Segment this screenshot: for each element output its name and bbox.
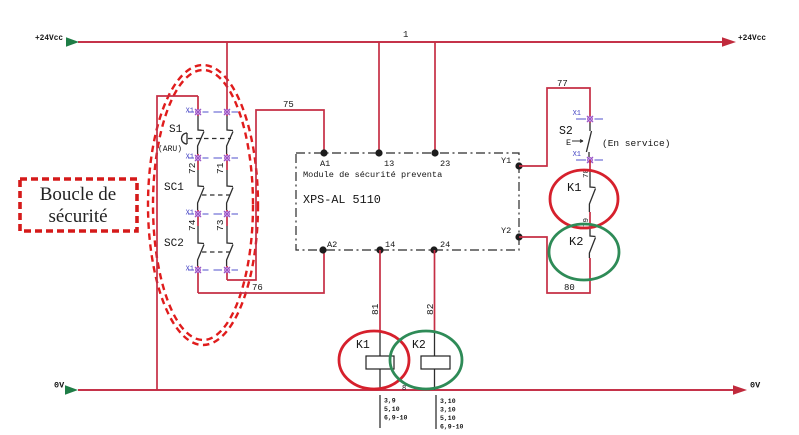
- node Y2 pin: [515, 233, 522, 240]
- label X1 S2 bottom + dashes: [573, 151, 603, 160]
- svg-text:72: 72: [187, 162, 198, 174]
- wire 81 (pin14 to K1 coil to 0V): [379, 250, 381, 332]
- annotation red circle K1 coil: [339, 331, 409, 389]
- svg-text:14: 14: [385, 240, 395, 250]
- node A1 pin: [320, 149, 327, 156]
- S1 mushroom actuator: [182, 133, 188, 144]
- terminal X1 pair2 left: [195, 155, 201, 161]
- svg-text:E: E: [566, 138, 571, 148]
- svg-text:K2: K2: [412, 339, 426, 352]
- wire left chain red segments: [197, 96, 199, 293]
- SC2 actuator dashed link: [202, 251, 230, 253]
- wire S2 to K1 contact: [589, 160, 591, 172]
- terminal X1 pair4 right: [224, 267, 230, 273]
- node 14 pin: [376, 246, 383, 253]
- svg-text:sécurité: sécurité: [48, 206, 107, 227]
- contact K2 (NO): [589, 229, 595, 258]
- svg-text:3,10: 3,10: [440, 398, 456, 405]
- terminal X1 pair4 left: [195, 267, 201, 273]
- label X1 pair4 + blue leader dashes: [186, 266, 238, 274]
- svg-text:X1: X1: [573, 151, 581, 159]
- power 0V left arrow: [65, 385, 78, 395]
- terminal X1 S2 top: [587, 116, 593, 122]
- svg-text:XPS-AL 5110: XPS-AL 5110: [303, 193, 381, 207]
- wire 76 (left chain bottom to A2): [198, 250, 324, 293]
- wire 77 (Y1 feedback to S2): [519, 88, 590, 166]
- node 23 pin: [431, 149, 438, 156]
- svg-text:3,9: 3,9: [384, 398, 396, 405]
- annotation safety-loop dashed ellipse (inner): [153, 70, 253, 340]
- wire 82 (pin24 to K2 coil to 0V): [434, 250, 436, 332]
- label X1 pair2 + blue leader dashes: [186, 154, 238, 162]
- K2 contact cross-reference table: [435, 395, 437, 429]
- svg-text:A2: A2: [327, 240, 337, 250]
- svg-text:75: 75: [283, 100, 294, 110]
- svg-text:76: 76: [252, 283, 263, 293]
- power 0V right arrow: [733, 385, 747, 395]
- K1 contact cross-reference table: [379, 395, 381, 428]
- wire +24Vcc top rail (net 1): [78, 41, 725, 43]
- svg-text:24: 24: [440, 240, 450, 250]
- terminal X1 pair3 right: [224, 211, 230, 217]
- svg-text:Y2: Y2: [501, 226, 511, 236]
- wire K1 to K2 contact: [589, 212, 591, 229]
- S1 actuator dashed link: [188, 138, 231, 140]
- power +24Vcc left arrow: [66, 37, 79, 47]
- wire rail to pin 13: [378, 42, 380, 153]
- annotation green circle K2 coil: [390, 331, 462, 389]
- svg-text:Boucle de: Boucle de: [40, 184, 117, 205]
- annotation green circle K2 contact: [549, 224, 619, 280]
- svg-text:(En service): (En service): [602, 138, 670, 149]
- label X1 pair3 + blue leader dashes: [186, 210, 238, 218]
- svg-text:74: 74: [187, 219, 198, 231]
- node Y1 pin: [515, 162, 522, 169]
- svg-text:23: 23: [440, 159, 450, 169]
- switch S2 contact: [586, 123, 591, 157]
- svg-text:S1: S1: [169, 124, 183, 136]
- svg-text:0V: 0V: [54, 381, 65, 391]
- annotation safety-loop dashed ellipse (outer): [148, 65, 258, 345]
- contact S1 left pole: [198, 116, 204, 154]
- svg-text:X1: X1: [573, 110, 581, 118]
- svg-text:13: 13: [384, 159, 394, 169]
- coil K2: [421, 356, 450, 369]
- svg-text:(ARU): (ARU): [158, 145, 182, 154]
- svg-text:8: 8: [402, 385, 406, 393]
- node 13 pin: [375, 149, 382, 156]
- contact SC2 left pole: [198, 226, 204, 266]
- contact S1 right pole: [227, 116, 233, 154]
- svg-text:1: 1: [403, 30, 408, 40]
- annotation red circle K1 contact: [550, 170, 618, 228]
- SC1 actuator dashed link: [202, 194, 230, 196]
- svg-text:77: 77: [557, 79, 568, 89]
- node 24 pin: [430, 246, 437, 253]
- svg-text:SC1: SC1: [164, 182, 184, 194]
- svg-text:80: 80: [564, 283, 575, 293]
- svg-text:5,10: 5,10: [384, 406, 400, 413]
- svg-text:81: 81: [370, 303, 381, 315]
- terminal X1 pair1 right: [224, 109, 230, 115]
- wire right chain red segments: [226, 154, 228, 280]
- wire 75 (right chain bottom to A1): [227, 110, 324, 280]
- svg-text:5,10: 5,10: [440, 415, 456, 422]
- svg-text:71: 71: [215, 162, 226, 174]
- terminal X1 S2 bottom: [587, 157, 593, 163]
- contact SC1 right pole: [227, 170, 233, 210]
- svg-text:+24Vcc: +24Vcc: [35, 35, 63, 43]
- svg-text:A1: A1: [320, 159, 330, 169]
- svg-text:SC2: SC2: [164, 238, 184, 250]
- label X1 S2 top + dashes: [573, 110, 603, 119]
- svg-text:73: 73: [215, 219, 226, 231]
- power +24Vcc right arrow: [722, 37, 736, 47]
- wire rail to pin 23: [434, 42, 436, 153]
- svg-text:Module de sécurité preventa: Module de sécurité preventa: [303, 170, 442, 180]
- op-amp U1 safety module XPS-AL box: [296, 153, 519, 250]
- svg-text:0V: 0V: [750, 381, 761, 391]
- svg-text:S2: S2: [559, 125, 573, 138]
- label X1 pair1 + blue leader dashes: [186, 108, 238, 116]
- svg-text:K2: K2: [569, 235, 583, 249]
- terminal X1 pair1 left: [195, 109, 201, 115]
- terminal X1 pair2 right: [224, 155, 230, 161]
- svg-text:K1: K1: [356, 339, 370, 352]
- wire 0V bottom rail: [78, 389, 736, 391]
- svg-text:+24Vcc: +24Vcc: [738, 35, 766, 43]
- svg-text:6,9-10: 6,9-10: [384, 415, 408, 422]
- coil K1: [366, 356, 394, 369]
- contact SC1 left pole: [198, 170, 204, 210]
- wire +24V rail down to S1 right chain: [226, 42, 228, 116]
- terminal X1 pair3 left: [195, 211, 201, 217]
- wire 80 (K2 contact to Y2): [519, 237, 590, 293]
- svg-text:82: 82: [425, 303, 436, 315]
- svg-text:3,10: 3,10: [440, 407, 456, 414]
- svg-text:6,9-10: 6,9-10: [440, 424, 464, 431]
- annotation box Boucle de securite: [20, 179, 137, 231]
- node A2 pin: [319, 246, 326, 253]
- contact K1 (NO): [589, 172, 595, 212]
- wire left chain top to 0V rail: [157, 96, 198, 390]
- svg-text:Y1: Y1: [501, 156, 511, 166]
- svg-text:K1: K1: [567, 181, 581, 195]
- contact SC2 right pole: [227, 226, 233, 266]
